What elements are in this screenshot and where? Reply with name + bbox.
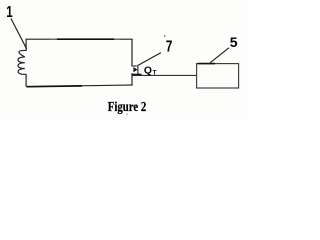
svg-text:7: 7 [166,39,173,56]
svg-text:1: 1 [6,4,12,21]
svg-text:Figure 2: Figure 2 [108,100,147,115]
svg-text:T: T [153,69,157,76]
svg-text:Q: Q [144,65,152,76]
svg-text:5: 5 [230,34,238,50]
